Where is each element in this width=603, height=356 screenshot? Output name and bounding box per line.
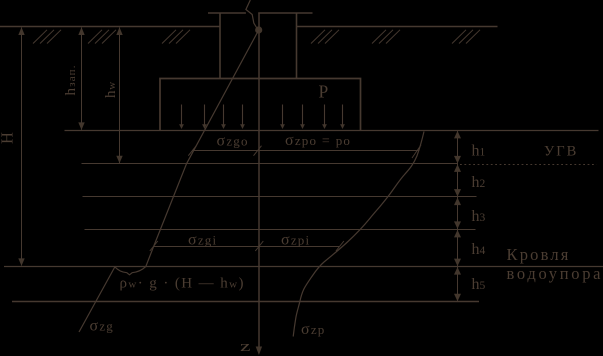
z axis arrowhead xyxy=(256,347,262,356)
h5 bottom arrowhead xyxy=(454,294,461,302)
sigma-zg below aquiclude xyxy=(79,267,115,332)
svg-text:h3: h3 xyxy=(472,208,486,225)
svg-text:hзап.: hзап. xyxy=(63,64,79,95)
dimension slash middle xyxy=(254,146,262,156)
sigma-zg top squiggle xyxy=(246,0,257,28)
dimension slash i right xyxy=(336,241,344,251)
column top cut line xyxy=(208,12,313,14)
sigma-zp stress curve xyxy=(293,132,424,337)
layer line 4 aquiclude top xyxy=(4,266,603,268)
h4 bottom arrowhead xyxy=(454,259,461,267)
svg-text:z: z xyxy=(240,339,251,355)
svg-text:h1: h1 xyxy=(472,143,486,160)
h4 top arrowhead xyxy=(454,230,461,238)
H top arrowhead xyxy=(18,27,24,35)
dimension slash right xyxy=(412,145,421,158)
svg-text:σzgo: σzgo xyxy=(217,133,249,150)
h2 top arrowhead xyxy=(454,164,461,172)
load application dot xyxy=(255,26,262,33)
sigma_zgi sigma_zpi dimension line xyxy=(154,246,339,248)
layer line 5 bottom xyxy=(12,301,479,303)
h layers dimension column xyxy=(457,131,459,301)
svg-text:водоупора: водоупора xyxy=(507,264,603,283)
sigma-zg natural stress line xyxy=(146,30,259,267)
dimension slash left xyxy=(188,146,196,156)
svg-text:УГВ: УГВ xyxy=(544,143,578,159)
svg-text:σzp: σzp xyxy=(301,321,326,338)
load arrows xyxy=(179,105,345,130)
water table dotted line xyxy=(460,164,597,166)
h3 top arrowhead xyxy=(454,198,461,206)
ground surface line right xyxy=(297,26,498,28)
layer line 2 xyxy=(83,196,477,198)
h_w dimension line xyxy=(119,28,121,164)
h3 bottom arrowhead xyxy=(454,221,461,229)
ground hatching group 6 xyxy=(452,30,480,44)
ground hatching group 3 xyxy=(162,30,190,44)
ground hatching group 5 xyxy=(372,30,400,44)
h1 top arrowhead xyxy=(454,131,461,139)
h_zap dimension line xyxy=(81,28,83,130)
ground hatching group 4 xyxy=(311,30,339,44)
footing xyxy=(160,79,361,131)
ground hatching group 2 xyxy=(88,30,116,44)
H bottom arrowhead xyxy=(18,258,24,266)
svg-text:h2: h2 xyxy=(472,174,486,191)
h_zap bottom arrowhead xyxy=(78,122,84,129)
stress jump brace xyxy=(115,267,146,275)
svg-text:h4: h4 xyxy=(472,241,486,258)
H dimension line xyxy=(21,28,23,266)
ground hatching group 1 xyxy=(33,30,61,44)
svg-text:σzpi: σzpi xyxy=(281,232,310,249)
footing base line xyxy=(65,130,599,132)
h2 bottom arrowhead xyxy=(454,189,461,197)
dimension slash i middle xyxy=(255,241,263,251)
svg-text:h5: h5 xyxy=(472,276,486,293)
svg-text:P: P xyxy=(319,81,329,101)
svg-text:Кровля: Кровля xyxy=(507,245,571,264)
svg-text:ρw· g · (H — hw): ρw· g · (H — hw) xyxy=(120,276,245,292)
svg-text:hw: hw xyxy=(103,81,119,98)
svg-text:σzgi: σzgi xyxy=(188,232,217,249)
h_w top arrowhead xyxy=(116,27,122,35)
foundation column xyxy=(220,13,297,79)
svg-text:Н: Н xyxy=(0,132,17,144)
svg-text:σzpo = po: σzpo = po xyxy=(285,132,351,149)
center z axis xyxy=(258,14,260,349)
ground surface line left xyxy=(0,26,220,28)
dimension slash i left xyxy=(150,241,158,251)
layer line 3 xyxy=(85,229,476,231)
svg-text:σzg: σzg xyxy=(90,318,115,335)
layer line 1 water table xyxy=(82,163,458,165)
h_w bottom arrowhead xyxy=(116,156,122,163)
h_zap top arrowhead xyxy=(78,27,84,35)
h1 bottom arrowhead xyxy=(454,156,461,164)
sigma_zg0 sigma_zp0 dimension line xyxy=(192,150,419,152)
h5 top arrowhead xyxy=(454,267,461,275)
